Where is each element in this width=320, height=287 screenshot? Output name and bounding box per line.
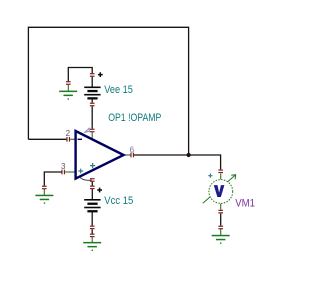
svg-text:VM1: VM1 — [235, 197, 255, 209]
svg-text:3: 3 — [61, 162, 66, 171]
svg-text:Vcc 15: Vcc 15 — [104, 195, 133, 207]
svg-text:2: 2 — [66, 129, 71, 138]
svg-text:OP1 !OPAMP: OP1 !OPAMP — [108, 112, 161, 124]
svg-text:Vee 15: Vee 15 — [104, 84, 133, 96]
svg-text:6: 6 — [130, 145, 135, 154]
